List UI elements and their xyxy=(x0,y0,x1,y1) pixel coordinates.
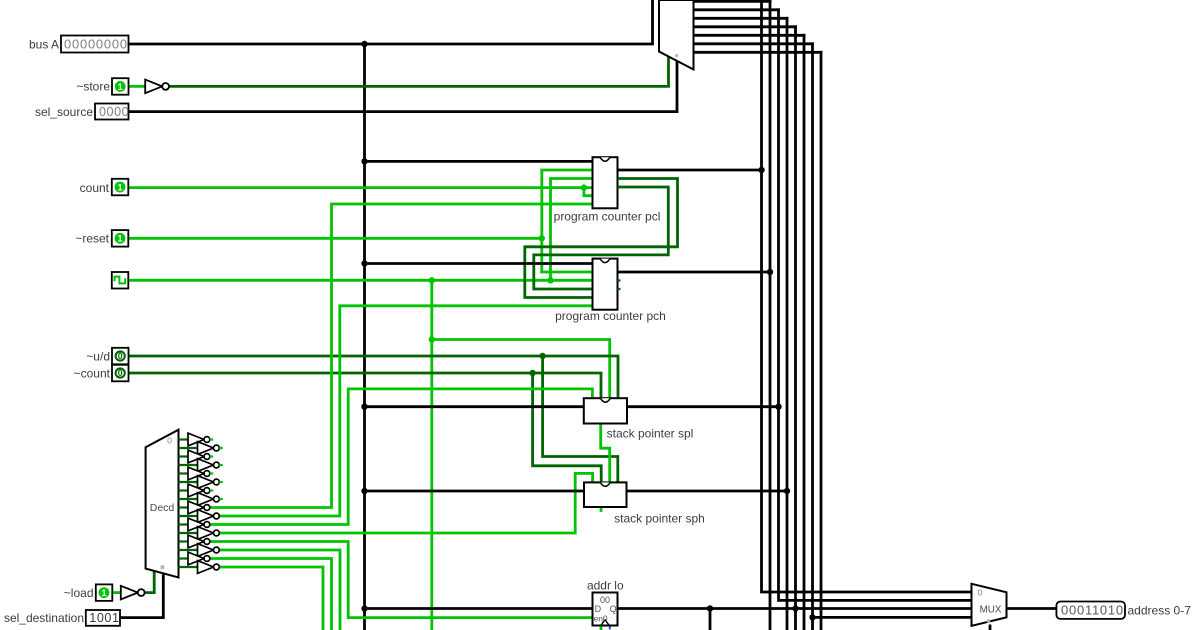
inverter decoder row 8 xyxy=(179,501,210,514)
input pin bus A xyxy=(29,36,129,53)
inverter decoder row 9 xyxy=(179,510,220,523)
svg-text:0: 0 xyxy=(118,368,123,378)
wire decoder row15 down xyxy=(220,567,323,630)
wire pcl carry loop B xyxy=(534,187,669,289)
wire clock branch to spl xyxy=(432,340,610,399)
input pin ~reset xyxy=(75,230,128,247)
wire addr lo Q to mux xyxy=(618,605,972,611)
svg-text:Q: Q xyxy=(610,604,617,614)
input pin ~u/d xyxy=(86,348,128,365)
wire decoder row8 to pcl en xyxy=(211,204,593,508)
decoder Decd xyxy=(146,430,179,578)
svg-text:D: D xyxy=(595,604,602,614)
inverter decoder row 1 xyxy=(179,442,223,455)
wire demux output 4 xyxy=(694,25,796,28)
input pin ~count xyxy=(74,365,129,382)
wire pch data in xyxy=(365,262,593,265)
svg-text:Decd: Decd xyxy=(150,502,175,514)
inverter decoder row 4 xyxy=(179,467,214,480)
wire bus vertical 6 xyxy=(803,35,806,630)
inverter decoder row 15 xyxy=(179,561,220,574)
wire decoder row11 to sph en xyxy=(220,473,593,533)
wire decoder row12 to addr lo en xyxy=(211,542,593,618)
inverter decoder row 7 xyxy=(179,493,223,506)
wire decoder row9 to pch en xyxy=(220,306,593,516)
register addr lo xyxy=(587,578,624,625)
wire bus vertical 8 xyxy=(820,52,823,630)
wire count to pcl xyxy=(129,184,593,190)
wire demux output 3 xyxy=(694,17,788,20)
output pin address 0-7 xyxy=(1056,602,1191,619)
svg-text:stack pointer sph: stack pointer sph xyxy=(614,511,705,525)
svg-text:MUX: MUX xyxy=(980,605,1002,616)
wire ~store pin to inverter xyxy=(129,85,146,88)
wire ~load pin to inverter xyxy=(112,591,121,594)
svg-text:1: 1 xyxy=(101,588,107,599)
wire demux output 1 xyxy=(694,0,771,3)
wire spl carry to sph xyxy=(601,424,610,483)
wire bus A horizontal xyxy=(129,0,653,47)
svg-text:address 0-7: address 0-7 xyxy=(1128,604,1192,618)
wire clock branch to pcl xyxy=(551,179,593,281)
inverter decoder row 3 xyxy=(179,459,223,472)
inverter decoder row 5 xyxy=(179,476,223,489)
svg-text:0: 0 xyxy=(978,588,983,598)
wire addr lo unconnected stub xyxy=(609,626,611,629)
inverter decoder row 6 xyxy=(179,484,214,497)
wire pcl data in xyxy=(365,160,593,163)
input pin sel_source xyxy=(35,104,129,120)
svg-text:~load: ~load xyxy=(64,586,94,600)
wire bus vertical 2 xyxy=(767,1,773,630)
wire addr lo Q branch down xyxy=(709,609,712,630)
wire count hook to pcl load xyxy=(584,188,593,196)
svg-text:addr lo: addr lo xyxy=(587,578,624,592)
wire pch Q out xyxy=(618,271,771,274)
input pin count xyxy=(80,179,129,196)
svg-text:sel_destination: sel_destination xyxy=(4,611,84,625)
svg-text:~store: ~store xyxy=(76,80,110,94)
wire sph data in xyxy=(365,490,585,493)
svg-text:0: 0 xyxy=(118,351,123,361)
wire mux output to address pin xyxy=(1007,607,1057,610)
svg-text:~count: ~count xyxy=(74,366,111,380)
wire decoder row13 down xyxy=(220,550,340,630)
subcircuit stack pointer sph xyxy=(584,482,705,525)
svg-text:stack pointer spl: stack pointer spl xyxy=(607,427,694,441)
wire bus vertical 4 xyxy=(784,18,790,630)
wire mux input3 row xyxy=(813,616,972,619)
svg-text:program counter pch: program counter pch xyxy=(555,309,666,323)
wire ~reset into pch xyxy=(542,271,593,274)
svg-text:0: 0 xyxy=(167,436,172,446)
wire sph Q out xyxy=(627,490,788,493)
wire demux output 2 xyxy=(694,8,779,11)
wire addr lo data in xyxy=(365,607,593,610)
wire bus vertical 5 xyxy=(792,27,798,630)
svg-text:1: 1 xyxy=(117,234,123,245)
wire addr lo clock stub xyxy=(600,626,603,630)
wire clock row xyxy=(129,277,593,283)
wire bus vertical 3 xyxy=(775,10,971,601)
inverter ~store NOT gate xyxy=(145,80,169,94)
wire mux select stub xyxy=(989,626,992,630)
wire spl Q out xyxy=(627,405,779,408)
clock pin xyxy=(112,272,129,289)
wire ~reset row xyxy=(129,235,546,241)
demultiplexer U1 xyxy=(659,0,694,70)
svg-text:program counter pcl: program counter pcl xyxy=(554,210,661,224)
input pin ~load xyxy=(64,584,113,601)
inverter decoder row 11 xyxy=(179,527,220,540)
svg-text:1001: 1001 xyxy=(89,611,119,625)
wire decoder row14 down xyxy=(211,559,332,630)
svg-text:~u/d: ~u/d xyxy=(86,349,110,363)
inverter decoder row 14 xyxy=(179,552,210,565)
input pin ~store xyxy=(76,78,128,95)
wire ~reset branch to pcl xyxy=(542,170,593,272)
wire sph carry stub xyxy=(600,507,603,511)
inverter decoder row 0 xyxy=(179,433,214,446)
inverter ~load NOT gate xyxy=(121,586,145,600)
svg-text:00: 00 xyxy=(600,595,610,605)
wire bus A vertical distribution xyxy=(361,44,367,630)
wire ~count branch to sph xyxy=(533,373,602,482)
wire bus vertical 7 xyxy=(809,44,815,630)
wire demux output 5 xyxy=(694,34,805,37)
subcircuit stack pointer spl xyxy=(584,398,694,440)
inverter decoder row 12 xyxy=(179,535,210,548)
inverter decoder row 2 xyxy=(179,450,214,463)
wire spl data in xyxy=(365,405,584,408)
wire ~store inverted to demux enable xyxy=(168,58,668,87)
svg-text:1: 1 xyxy=(117,182,123,193)
svg-text:bus A: bus A xyxy=(29,37,59,51)
wire clock riser down xyxy=(429,280,435,630)
svg-text:en0: en0 xyxy=(594,614,608,624)
wire pcl carry loop A xyxy=(525,179,678,298)
inverter decoder row 13 xyxy=(179,544,220,557)
svg-text:count: count xyxy=(80,181,110,195)
wire demux output 7 xyxy=(694,51,822,54)
multiplexer MUX xyxy=(972,584,1007,626)
svg-text:00000000: 00000000 xyxy=(64,36,128,51)
wire ~u/d branch to sph xyxy=(543,356,618,482)
wire sel_source to demux select xyxy=(129,62,678,112)
svg-text:00011010: 00011010 xyxy=(1061,603,1124,618)
wire bus vertical 1 xyxy=(758,0,971,592)
wire ~u/d row to spl xyxy=(129,353,619,398)
svg-text:1: 1 xyxy=(118,82,124,93)
wire ~load inverted to decoder enable xyxy=(144,572,154,593)
wire sel_destination to decoder select xyxy=(120,576,163,618)
svg-text:~reset: ~reset xyxy=(75,232,109,246)
inverter decoder row 10 xyxy=(179,518,210,531)
wire ~count row to spl xyxy=(129,370,602,398)
wire demux output 6 xyxy=(694,42,813,45)
subcircuit program counter pch xyxy=(555,259,666,323)
wire pcl Q out xyxy=(618,169,762,172)
wire decoder row10 to spl en xyxy=(211,389,593,525)
subcircuit program counter pcl xyxy=(554,157,661,223)
input pin sel_destination xyxy=(4,610,120,626)
svg-text:sel_source: sel_source xyxy=(35,105,93,119)
svg-text:0000: 0000 xyxy=(99,105,129,119)
